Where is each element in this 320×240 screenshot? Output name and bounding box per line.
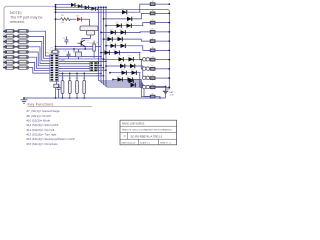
LED indicator circles <box>143 76 146 79</box>
wire J1 outputs <box>59 56 101 58</box>
svg-text:Key Functions: Key Functions <box>28 102 54 106</box>
svg-text:SHEET 1 / 1: SHEET 1 / 1 <box>160 142 172 144</box>
key switch S7a <box>5 61 15 64</box>
LED D10a <box>122 71 127 75</box>
connector J2 <box>90 62 97 72</box>
svg-text:LD3: LD3 <box>116 22 119 24</box>
node bus <box>168 13 170 15</box>
svg-text:LD7: LD7 <box>114 49 117 51</box>
wire row S3 <box>4 41 5 43</box>
LED D11a <box>118 77 123 81</box>
node S2 <box>3 36 5 38</box>
LED D8a <box>119 57 124 61</box>
transistor Q1 <box>80 41 82 46</box>
key switch S3b <box>18 40 29 43</box>
key switch S2a <box>5 35 15 38</box>
svg-text:LD8: LD8 <box>118 56 121 58</box>
pin J2-3 <box>90 67 93 69</box>
component X2 <box>54 84 59 87</box>
wire jog row 4 <box>140 31 150 34</box>
key switch S3a <box>5 40 15 43</box>
wire R13 to bus <box>155 31 169 33</box>
key switch S6a <box>5 56 15 59</box>
svg-text:RADIO LINK WORKS: RADIO LINK WORKS <box>122 123 145 126</box>
switch SW1 power <box>80 26 98 31</box>
node bus <box>168 3 170 5</box>
pin J1-7 <box>51 69 54 71</box>
wire R23 <box>83 73 85 80</box>
node S5 <box>3 51 5 53</box>
svg-text:#12 (S11(2))= SW on/oFF: #12 (S11(2))= SW on/oFF <box>27 123 59 127</box>
svg-text:3.0V: 3.0V <box>170 95 175 97</box>
svg-text:#13 (S11(6))= Turn right: #13 (S11(6))= Turn right <box>27 133 57 137</box>
key switch S4b <box>18 45 29 48</box>
wire LED row 10 <box>110 72 141 74</box>
LED D8b <box>129 57 134 61</box>
wire jog row 1 <box>140 4 150 12</box>
svg-text:NOTE): NOTE) <box>10 11 21 15</box>
key switch S4a <box>5 45 15 48</box>
node bus <box>168 40 170 42</box>
pin J1-3 <box>51 60 54 62</box>
wire jog row 10 <box>140 73 150 88</box>
svg-text:LD10: LD10 <box>131 69 135 71</box>
wire LED row 11 <box>113 79 141 81</box>
wire R22 <box>76 73 78 80</box>
svg-text:The FP port may be: The FP port may be <box>10 16 43 20</box>
svg-text:#8 (S9(1))= On/Off: #8 (S9(1))= On/Off <box>27 114 51 118</box>
node S4 <box>3 46 5 48</box>
wire vertical V1 <box>55 5 57 55</box>
wire SW1 to Q1 <box>82 39 91 41</box>
wire J2 links <box>97 62 98 64</box>
wire LED row 5 <box>104 38 141 40</box>
key switch S7b <box>18 61 29 64</box>
component C2 <box>76 52 82 57</box>
LED D1a <box>122 10 127 14</box>
wire J1 bottom stub <box>56 81 58 84</box>
resistor R2 <box>93 44 96 51</box>
wire R21 <box>69 73 71 80</box>
LED D9a <box>120 64 125 68</box>
svg-text:LD11: LD11 <box>117 76 121 78</box>
pin J1-6 <box>51 67 54 69</box>
LED indicator circles <box>143 58 146 61</box>
wire LED row 7 <box>101 52 141 54</box>
wire row S7 <box>4 61 5 63</box>
svg-text:LD7: LD7 <box>104 49 107 51</box>
wire jog row 8 <box>141 59 151 69</box>
LED D4b <box>121 30 126 34</box>
wire jog row 11 <box>141 80 151 97</box>
LED D9b <box>130 64 135 68</box>
svg-text:LD11: LD11 <box>127 76 131 78</box>
node S8 <box>3 67 5 69</box>
LED D5b <box>118 37 123 41</box>
svg-text:LD5: LD5 <box>117 36 120 38</box>
svg-text:LD3: LD3 <box>126 22 129 24</box>
wire R19 to bus <box>155 86 169 88</box>
wire Q1 emitter down <box>84 47 86 49</box>
svg-text:16M: 16M <box>61 60 65 62</box>
node bus <box>168 22 170 24</box>
svg-text:#10 (S1(3))= Mode: #10 (S1(3))= Mode <box>27 119 51 123</box>
wire R18 to bus <box>155 77 169 79</box>
svg-text:SCALE 1:1: SCALE 1:1 <box>140 141 151 144</box>
LED D12a <box>129 79 134 83</box>
wire R110 to bus <box>155 97 160 98</box>
pin J1-8 <box>51 72 54 74</box>
key switch S5b <box>18 50 29 53</box>
wire LED row 1 <box>56 11 141 13</box>
wire common switch bus (left, with top run) <box>4 6 56 67</box>
node bus <box>168 49 170 51</box>
svg-text:LD8: LD8 <box>128 56 131 58</box>
wire lower jogs <box>141 81 150 87</box>
wire jog row 5 <box>141 39 151 41</box>
wire LED row 2 <box>104 18 141 20</box>
wire R20 <box>62 73 64 80</box>
node bus <box>168 59 170 61</box>
ground symbol <box>23 98 25 100</box>
wire LED row 4 <box>101 31 141 33</box>
svg-text:#14 (S11(4))= Steadying/Patter: #14 (S11(4))= Steadying/Pattern on/off <box>27 137 75 141</box>
wire LED row 3 <box>106 25 141 27</box>
pin J1-4 <box>51 62 54 64</box>
capacitor C3 <box>57 86 61 88</box>
wire rail C to right bus <box>56 8 98 10</box>
pin J2-1 <box>90 62 93 64</box>
pin J1-9 <box>51 74 54 76</box>
wire R17 to bus <box>155 68 169 70</box>
svg-text:LD6: LD6 <box>120 42 123 44</box>
connector J1 FP100-8 outline <box>50 54 59 81</box>
svg-text:mirrored.: mirrored. <box>10 20 25 24</box>
svg-text:LD6: LD6 <box>110 42 113 44</box>
wire LED row 6 <box>106 45 141 47</box>
svg-text:#15 (S11(1))= Omni/Auto: #15 (S11(1))= Omni/Auto <box>27 142 59 146</box>
svg-text:LD9: LD9 <box>129 62 132 64</box>
wire R1-D1 <box>56 18 61 20</box>
node S6 <box>3 56 5 58</box>
wire V1 lower <box>55 88 57 98</box>
node bus <box>168 86 170 88</box>
bus verticals <box>98 7 100 80</box>
pin J1-5 <box>51 65 54 67</box>
wire R12 to bus <box>155 22 169 24</box>
svg-text:REMOTE CIRCUIT (TRANSMITTER SC: REMOTE CIRCUIT (TRANSMITTER SCHEMATIC) <box>122 129 172 132</box>
key switch S6b <box>18 56 29 59</box>
wire lower LED rows <box>99 80 142 83</box>
svg-text:LD10: LD10 <box>121 69 125 71</box>
wire row y49 <box>56 48 96 50</box>
wire LED row 9 <box>106 65 141 67</box>
title block frame <box>120 120 177 145</box>
wire ground rail <box>24 97 166 99</box>
node top tap <box>55 6 57 8</box>
wire jog row 2 <box>141 13 151 19</box>
LED D13a <box>131 83 136 87</box>
LED D3a <box>117 24 122 28</box>
diode chain D2-D5 <box>71 3 75 7</box>
key switch S1a <box>5 30 15 33</box>
svg-text:LD4: LD4 <box>110 29 113 31</box>
key switch S2b <box>18 35 29 38</box>
pin J1-11 <box>51 79 54 81</box>
svg-text:LD2: LD2 <box>126 15 129 17</box>
wire mid rail B <box>56 6 107 8</box>
svg-text:LD9: LD9 <box>119 62 122 64</box>
svg-text:#11 (S11(5))= Turn left: #11 (S11(5))= Turn left <box>27 128 55 132</box>
wire top rail A <box>56 4 74 6</box>
LED D3b <box>127 24 132 28</box>
pin J1-2 <box>51 57 54 59</box>
wire row S4 <box>4 46 5 48</box>
wire jog row 6 <box>141 46 151 51</box>
LED indicator circles <box>143 67 146 70</box>
svg-text:LD1: LD1 <box>121 9 124 11</box>
pin J1-10 <box>51 77 54 79</box>
LED D7a <box>105 50 110 54</box>
pin J2-4 <box>90 70 93 72</box>
node S7 <box>3 62 5 64</box>
svg-text:#7 (S1(1))= Game/Charge: #7 (S1(1))= Game/Charge <box>27 109 61 113</box>
LED D5a <box>108 37 113 41</box>
wire jog row 3 <box>141 23 151 26</box>
key switch S8b <box>18 66 29 69</box>
LED D6a <box>111 44 116 48</box>
svg-text:C: C <box>124 134 126 138</box>
wire R14 to bus <box>155 40 169 42</box>
LED D4a <box>111 30 116 34</box>
node rail C <box>97 9 99 11</box>
svg-text:DATE 04-06-18: DATE 04-06-18 <box>122 141 137 144</box>
key switch S5a <box>5 50 15 53</box>
LED D6b <box>121 44 126 48</box>
node bus <box>168 68 170 70</box>
wire row S1 <box>4 30 5 32</box>
pin J1-1 <box>51 55 54 57</box>
wire y46.5 <box>56 46 102 48</box>
wire R15 to bus <box>155 49 169 51</box>
wire row S8 <box>4 67 5 69</box>
wire LED row 8 <box>104 58 141 60</box>
wire row S2 <box>4 35 5 37</box>
wire R11 to bus <box>155 12 169 14</box>
LED D11b <box>128 77 133 81</box>
wire jog row 7 <box>140 53 150 60</box>
LED D2a <box>127 17 132 21</box>
LED D10b <box>132 71 137 75</box>
node S1 <box>3 30 5 32</box>
node bus <box>168 77 170 79</box>
wire row S5 <box>4 51 5 53</box>
battery BT1 <box>163 90 168 92</box>
key switch S1b <box>18 30 29 33</box>
wire jog row 9 <box>141 66 151 78</box>
wire R10 to bus <box>155 3 169 5</box>
wire R16 to bus <box>155 59 169 61</box>
wire bus to battery <box>166 88 170 90</box>
svg-text:LD4: LD4 <box>120 29 123 31</box>
node S3 <box>3 41 5 43</box>
node V1 taps <box>55 18 57 20</box>
LED D7b <box>115 50 120 54</box>
key switch S8a <box>5 66 15 69</box>
svg-text:SC-RD-RB5741-A TRD1-2: SC-RD-RB5741-A TRD1-2 <box>131 134 163 138</box>
wire misc <box>73 49 75 53</box>
LED indicator circles <box>143 85 146 88</box>
pin J2-2 <box>90 65 93 67</box>
node bus <box>168 31 170 33</box>
svg-text:LD5: LD5 <box>107 36 110 38</box>
wire row S6 <box>4 56 5 58</box>
